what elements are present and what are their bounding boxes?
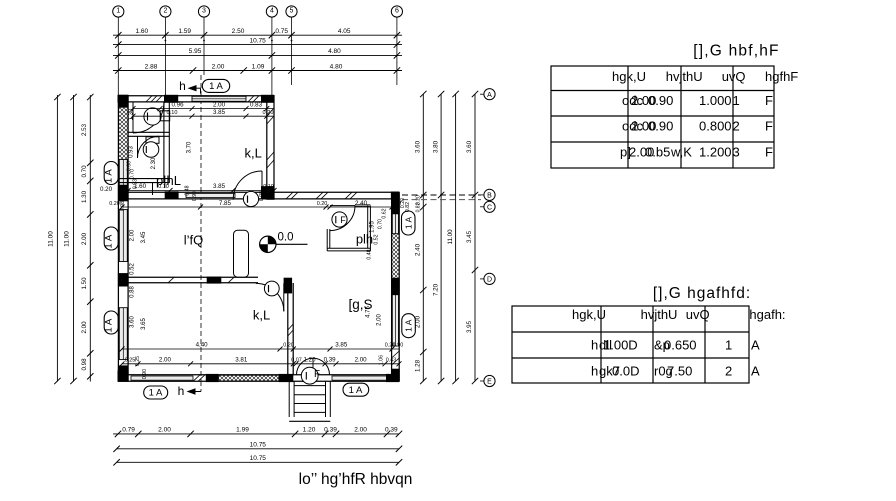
svg-text:1.000: 1.000 [699, 93, 732, 108]
svg-text:B: B [487, 193, 492, 200]
svg-text:3.85: 3.85 [213, 109, 226, 116]
svg-text:1 A: 1 A [104, 318, 115, 332]
door k,L lower [256, 283, 284, 311]
axis bubble C [480, 201, 495, 212]
svg-text:[],G hgafhfd:: [],G hgafhfd: [653, 285, 751, 302]
svg-text:2.53: 2.53 [81, 123, 88, 136]
right exterior wall (axis 6) [391, 192, 400, 382]
small rotated dims right wing [192, 191, 411, 365]
axis line 2 [164, 17, 166, 95]
table 2 title [653, 285, 751, 302]
axis bubble 5 [286, 6, 297, 17]
svg-text:0.98: 0.98 [81, 358, 88, 371]
small rotated dims left zone [120, 108, 193, 379]
table 2 header [572, 307, 786, 322]
svg-text:2: 2 [163, 8, 167, 15]
k,L window dims top [131, 101, 275, 118]
svg-text:2.00: 2.00 [212, 63, 225, 70]
svg-text:hgfhF: hgfhF [765, 69, 798, 84]
drawing title [299, 471, 413, 488]
window tag oval bottom right (1 A) [343, 383, 369, 396]
level marker 0.0 [260, 232, 308, 253]
svg-text:1.06: 1.06 [379, 355, 385, 365]
svg-text:0.70: 0.70 [81, 165, 88, 178]
axis line 4 [271, 17, 273, 95]
door tag circle 1 (k,L lower) [264, 281, 279, 296]
door tag circle F (entrance) [301, 367, 320, 384]
svg-text:2.00: 2.00 [81, 321, 88, 334]
table 2 row 1 [591, 338, 760, 353]
left dimension line outer (11.00) [48, 94, 61, 384]
svg-text:hgafh:: hgafh: [749, 307, 785, 322]
left exterior wall [118, 95, 129, 382]
svg-text:0.98: 0.98 [120, 201, 126, 211]
small dim 0.20 left [100, 186, 113, 193]
svg-text:F: F [765, 93, 773, 108]
svg-text:2.00: 2.00 [355, 357, 368, 364]
table 1 header [612, 69, 798, 84]
svg-text:F: F [765, 145, 773, 160]
svg-text:2.00: 2.00 [354, 427, 367, 434]
axis 3 dashed line [200, 75, 202, 382]
svg-text:3.95: 3.95 [466, 320, 473, 333]
svg-text:1.59: 1.59 [178, 28, 191, 35]
window left wall 2 [119, 210, 127, 262]
svg-text:1.30: 1.30 [81, 190, 88, 203]
svg-text:1 A: 1 A [104, 169, 115, 183]
window tag oval right lower [402, 314, 416, 338]
svg-text:2.30: 2.30 [151, 157, 157, 169]
svg-text:0.79: 0.79 [122, 427, 135, 434]
svg-text:0.43: 0.43 [386, 358, 397, 364]
svg-text:0.70: 0.70 [378, 219, 384, 229]
svg-text:0.93: 0.93 [133, 179, 139, 189]
bathroom right wall vertical [164, 102, 169, 183]
axis line 6 [396, 17, 398, 85]
window tag oval right wing [402, 211, 416, 235]
svg-text:10.75: 10.75 [250, 442, 267, 449]
svg-text:hvjthU: hvjthU [666, 69, 703, 84]
svg-text:F: F [765, 119, 773, 134]
window in top wall (k,L) [192, 96, 246, 101]
svg-text:0.800: 0.800 [699, 119, 732, 134]
svg-text:[],G hbf,hF: [],G hbf,hF [693, 43, 779, 60]
top dimension line 3 [113, 48, 402, 59]
svg-text:3.45: 3.45 [466, 230, 473, 243]
dim line above bottom wall (4.40/3.95) [120, 342, 404, 352]
axis line 5 [291, 17, 293, 85]
table 1 grid [551, 66, 774, 168]
window tag oval left [104, 162, 119, 185]
svg-text:0.83: 0.83 [250, 101, 263, 108]
door bathroom 2 [138, 136, 160, 158]
bathroom2 bottom wall [118, 179, 169, 183]
svg-text:0.20: 0.20 [263, 110, 274, 116]
svg-text:2.00: 2.00 [377, 314, 383, 326]
door bathroom 1 (top wall) [133, 102, 164, 133]
room label plh [356, 232, 373, 247]
svg-text:3: 3 [202, 8, 206, 15]
svg-text:1.50: 1.50 [81, 277, 88, 290]
svg-text:0.20: 0.20 [317, 201, 328, 207]
svg-text:2.40: 2.40 [415, 243, 422, 256]
svg-text:0.96: 0.96 [171, 101, 184, 108]
svg-text:0.98: 0.98 [259, 191, 265, 201]
right dimension line 3 [447, 91, 459, 384]
table 2 row 2 [591, 364, 760, 379]
svg-text:1 A: 1 A [349, 385, 363, 396]
svg-text:C: C [487, 204, 492, 211]
svg-text:2.00: 2.00 [158, 427, 171, 434]
room label l'fQ [184, 233, 204, 248]
svg-text:3.45: 3.45 [141, 231, 147, 243]
window tag oval bottom left (1 A) [144, 386, 168, 399]
svg-text:1.95: 1.95 [370, 221, 376, 233]
svg-text:1 A: 1 A [404, 319, 414, 332]
table 1 row 3 [620, 145, 773, 160]
dim line above bottom wall (2.00/3.81/1.20) [120, 357, 402, 367]
top dimension line 1 [113, 28, 402, 38]
svg-text:F: F [314, 369, 320, 380]
svg-text:0.10: 0.10 [158, 184, 169, 190]
window left wall 1 [119, 159, 127, 185]
svg-text:3.60: 3.60 [466, 140, 473, 153]
axis bubble 6 [391, 6, 402, 17]
room label k,L lower [253, 308, 270, 323]
svg-text:0.75: 0.75 [275, 28, 288, 35]
svg-text:0.39: 0.39 [324, 427, 337, 434]
svg-text:2.50: 2.50 [232, 28, 245, 35]
svg-text:1: 1 [116, 8, 120, 15]
svg-text:0.48: 0.48 [367, 249, 373, 259]
svg-text:l’fQ: l’fQ [184, 233, 204, 248]
axis bubble 3 [198, 6, 209, 17]
svg-text:4.75: 4.75 [366, 306, 372, 318]
top dimension line 4 [113, 63, 402, 73]
svg-text:3.60: 3.60 [130, 316, 136, 328]
svg-text:0.90: 0.90 [142, 369, 148, 379]
svg-text:h: h [178, 384, 185, 398]
svg-text:0.10: 0.10 [167, 110, 178, 116]
svg-text:A: A [487, 92, 492, 99]
svg-text:11.00: 11.00 [48, 231, 55, 247]
k,L door dims bottom [126, 183, 277, 193]
svg-text:1 A: 1 A [404, 217, 414, 230]
svg-text:F: F [340, 215, 346, 225]
svg-text:0.52: 0.52 [130, 263, 136, 275]
svg-text:hgk,U: hgk,U [612, 69, 646, 84]
svg-text:4: 4 [270, 8, 274, 15]
svg-text:0.0: 0.0 [278, 232, 294, 244]
table 1 row 2 [622, 119, 773, 134]
top dimension line 2 [113, 37, 402, 48]
entrance double door [297, 358, 330, 375]
svg-text:2: 2 [725, 364, 732, 379]
window right wall 2 [392, 295, 398, 346]
svg-text:0.90: 0.90 [648, 119, 673, 134]
svg-text:2.00: 2.00 [159, 357, 172, 364]
bottom dimension line 1 [113, 427, 402, 438]
axis line 3 [203, 17, 205, 75]
svg-text:0.25: 0.25 [135, 356, 141, 366]
svg-text:E: E [487, 379, 492, 386]
left dimension line inner segments [81, 94, 94, 382]
svg-text:1.28: 1.28 [415, 359, 422, 372]
svg-text:11.00: 11.00 [64, 231, 71, 247]
svg-text:0.62: 0.62 [382, 208, 388, 218]
toilet bathroom 2 [143, 137, 159, 158]
svg-text:2.40: 2.40 [355, 200, 368, 207]
table 1 title [693, 43, 779, 60]
svg-text:0.48: 0.48 [185, 185, 191, 195]
bottom dimension line 3 (10.75) [113, 455, 402, 466]
right wall of upper block (axis 4) [266, 95, 274, 200]
svg-text:1: 1 [725, 338, 732, 353]
svg-text:0.0D: 0.0D [612, 364, 639, 379]
room label [g,S [348, 297, 372, 312]
svg-text:0.39: 0.39 [385, 427, 398, 434]
section mark h top [179, 79, 200, 94]
svg-text:10.75: 10.75 [249, 37, 266, 44]
svg-text:3: 3 [733, 145, 740, 160]
svg-text:2.00: 2.00 [213, 101, 226, 108]
svg-text:1.60: 1.60 [135, 28, 148, 35]
bottom dimension line 2 (10.75) [113, 442, 402, 453]
svg-text:2.00: 2.00 [130, 229, 136, 241]
svg-text:3.85: 3.85 [335, 342, 348, 349]
svg-text:k,L: k,L [253, 308, 270, 323]
svg-text:7.20: 7.20 [432, 283, 439, 296]
window tag oval left [104, 227, 119, 250]
svg-text:0.20: 0.20 [100, 186, 113, 193]
svg-text:0.52: 0.52 [374, 234, 380, 244]
left dimension line mid (11.00) [64, 94, 77, 384]
door k,L upper [233, 171, 262, 200]
svg-text:3.65: 3.65 [141, 318, 147, 330]
svg-text:1.30: 1.30 [128, 108, 134, 120]
svg-text:4.05: 4.05 [338, 28, 351, 35]
svg-text:0.88: 0.88 [130, 286, 136, 298]
svg-text:0.07: 0.07 [291, 358, 302, 364]
svg-text:D: D [487, 277, 492, 284]
axis 3 dashed line lower stub [200, 382, 202, 392]
svg-text:0.20: 0.20 [283, 343, 294, 349]
svg-text:3.70: 3.70 [187, 141, 193, 153]
svg-text:hgk,U: hgk,U [572, 307, 606, 322]
axis bubble B [480, 189, 495, 200]
svg-text:1.09: 1.09 [252, 63, 265, 70]
interior wall between k,L and [g,S [284, 278, 294, 375]
svg-text:0.20: 0.20 [109, 201, 120, 207]
svg-text:0.25: 0.25 [125, 358, 136, 364]
window tag oval top (1 A) [202, 79, 229, 92]
svg-text:4.80: 4.80 [330, 63, 343, 70]
bottom exterior wall [118, 371, 400, 383]
svg-text:1.99: 1.99 [236, 427, 249, 434]
svg-text:0.90: 0.90 [648, 93, 673, 108]
svg-text:7.85: 7.85 [219, 200, 232, 207]
svg-text:0.b5: 0.b5 [645, 145, 670, 160]
svg-text:4.40: 4.40 [196, 342, 209, 349]
table 2 grid [512, 306, 749, 383]
svg-text:A: A [751, 338, 760, 353]
door plh bathroom [330, 206, 355, 231]
7.85 dim line [109, 200, 401, 210]
interior wall axis D [128, 277, 258, 284]
svg-text:0.20: 0.20 [400, 198, 406, 208]
svg-text:h: h [591, 364, 598, 379]
svg-text:h: h [179, 79, 186, 93]
axis bubble 1 [113, 6, 124, 17]
svg-text:0.82: 0.82 [416, 202, 422, 212]
window tag oval left [104, 311, 119, 334]
axis bubble 2 [160, 6, 171, 17]
svg-text:3.81: 3.81 [235, 357, 248, 364]
svg-text:3.60: 3.60 [415, 140, 422, 153]
svg-text:3.85: 3.85 [213, 183, 226, 190]
table 1 row 1 [622, 93, 773, 108]
svg-text:A: A [751, 364, 760, 379]
svg-text:0.10: 0.10 [263, 184, 274, 190]
svg-text:0.90: 0.90 [393, 343, 404, 349]
svg-text:2.88: 2.88 [145, 63, 158, 70]
axis line 1 [117, 17, 119, 95]
svg-text:7.50: 7.50 [667, 364, 692, 379]
svg-text:0.90: 0.90 [192, 191, 198, 201]
section mark h bottom [178, 384, 201, 398]
room label pfhL [156, 173, 181, 188]
room label k,L upper [245, 146, 262, 161]
wall top of upper block [118, 95, 275, 103]
window left wall 3 [119, 308, 127, 360]
axis bubble D [480, 273, 495, 284]
svg-text:k,L: k,L [245, 146, 262, 161]
svg-text:1 A: 1 A [104, 234, 115, 248]
plh bathroom walls [327, 205, 370, 251]
axis B dashed stub [402, 194, 481, 196]
svg-text:uvQ: uvQ [686, 307, 710, 322]
bathroom divider wall horizontal [128, 132, 170, 136]
bottom wall of upper block / top wall of lower block [118, 183, 400, 200]
svg-text:2: 2 [733, 119, 740, 134]
door tag circle 1 (k,L) [243, 191, 258, 206]
svg-text:5.95: 5.95 [189, 48, 202, 55]
svg-text:uvQ: uvQ [722, 69, 746, 84]
svg-text:10.75: 10.75 [250, 455, 267, 462]
svg-text:1 A: 1 A [149, 388, 163, 399]
svg-text:11.00: 11.00 [447, 229, 454, 245]
axis C dashed stub [402, 199, 481, 201]
right dimension line 2 [432, 91, 444, 384]
svg-text:0.650: 0.650 [664, 338, 697, 353]
right dimension line 4 [466, 91, 478, 384]
door leaf rectangle in l'fQ [234, 230, 249, 277]
svg-text:4.80: 4.80 [328, 48, 341, 55]
svg-text:0.70: 0.70 [130, 169, 136, 179]
axis bubble E [480, 375, 495, 386]
toilet bathroom 1 [144, 108, 170, 125]
svg-text:hvjthU: hvjthU [641, 307, 678, 322]
svg-text:h: h [591, 338, 598, 353]
door tag circle F (plh) [332, 212, 347, 227]
svg-text:w,K: w,K [670, 145, 692, 160]
axis bubble 4 [266, 6, 277, 17]
svg-text:1: 1 [733, 93, 740, 108]
svg-text:6: 6 [395, 8, 399, 15]
svg-text:1.00D: 1.00D [603, 338, 638, 353]
svg-text:0.93: 0.93 [128, 146, 134, 158]
right dimension line 1 [415, 91, 427, 384]
svg-text:1 A: 1 A [209, 81, 223, 92]
svg-text:3.80: 3.80 [432, 140, 439, 153]
svg-text:lo’’ hg’hfR hbvqn: lo’’ hg’hfR hbvqn [299, 471, 413, 488]
svg-text:5: 5 [290, 8, 294, 15]
svg-text:1.20: 1.20 [303, 427, 316, 434]
svg-text:1.200: 1.200 [699, 145, 732, 160]
svg-text:2.00: 2.00 [81, 232, 88, 245]
axis bubble A [480, 89, 495, 100]
stairs [289, 382, 330, 422]
window right wall 1 [392, 214, 398, 234]
svg-text:1.20: 1.20 [303, 357, 316, 364]
svg-text:0.39: 0.39 [324, 357, 337, 364]
